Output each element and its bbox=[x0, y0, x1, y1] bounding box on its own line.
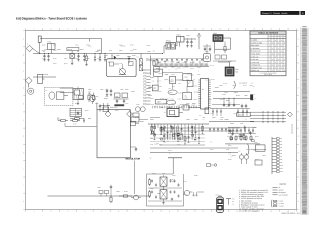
svg-text:Q304: Q304 bbox=[237, 136, 241, 138]
svg-text:10k: 10k bbox=[164, 112, 166, 114]
svg-text:R386: R386 bbox=[220, 119, 224, 121]
svg-text:75R: 75R bbox=[251, 82, 253, 84]
svg-text:X998: X998 bbox=[150, 188, 154, 190]
svg-text:4k7: 4k7 bbox=[169, 153, 171, 155]
svg-text:C185: C185 bbox=[95, 103, 99, 105]
svg-text:33p: 33p bbox=[227, 136, 229, 138]
svg-text:9: 9 bbox=[169, 210, 170, 213]
svg-text:X903: X903 bbox=[115, 110, 119, 112]
svg-text:R125: R125 bbox=[168, 150, 172, 152]
svg-text:33p: 33p bbox=[238, 151, 240, 153]
svg-text:R866: R866 bbox=[186, 79, 190, 81]
svg-text:4: 4 bbox=[84, 27, 85, 30]
svg-text:75R: 75R bbox=[166, 140, 168, 142]
svg-text:75R: 75R bbox=[228, 154, 230, 156]
svg-text:1: 1 bbox=[33, 27, 34, 30]
svg-text:D894: D894 bbox=[219, 85, 223, 87]
svg-text:11. IC7101 com dissipador: 11. IC7101 com dissipador bbox=[239, 210, 260, 213]
svg-text:J: J bbox=[23, 184, 24, 187]
svg-text:C279: C279 bbox=[190, 68, 194, 70]
svg-text:8: 8 bbox=[152, 27, 153, 30]
svg-text:T125: T125 bbox=[105, 89, 108, 91]
svg-text:AGC: AGC bbox=[172, 86, 175, 88]
svg-text:3: 3 bbox=[67, 27, 68, 30]
svg-text:BC848: BC848 bbox=[160, 98, 164, 100]
svg-text:X888: X888 bbox=[119, 50, 123, 52]
svg-text:D716: D716 bbox=[53, 58, 57, 60]
svg-text:AFT: AFT bbox=[195, 92, 198, 94]
svg-text:5: 5 bbox=[101, 210, 102, 213]
svg-text:L951: L951 bbox=[184, 98, 187, 100]
svg-text:28: 28 bbox=[165, 99, 167, 101]
svg-text:TO MAIN BD: TO MAIN BD bbox=[291, 124, 294, 135]
svg-text:7: 7 bbox=[135, 27, 136, 30]
svg-text:21: 21 bbox=[194, 61, 196, 63]
svg-text:X271: X271 bbox=[150, 144, 154, 146]
svg-text:75R: 75R bbox=[244, 119, 246, 121]
svg-text:4k7: 4k7 bbox=[229, 102, 231, 104]
svg-text:47p: 47p bbox=[176, 136, 178, 138]
svg-text:560: 560 bbox=[199, 115, 201, 117]
svg-text:10k: 10k bbox=[164, 142, 166, 144]
svg-text:T834: T834 bbox=[172, 175, 175, 177]
svg-text:L676: L676 bbox=[151, 104, 154, 106]
svg-text:Q500: Q500 bbox=[183, 194, 187, 196]
svg-text:T415: T415 bbox=[171, 74, 174, 76]
svg-text:R983: R983 bbox=[208, 99, 212, 101]
svg-text:R383: R383 bbox=[193, 99, 197, 101]
svg-text:L437: L437 bbox=[172, 103, 175, 105]
svg-text:100n: 100n bbox=[234, 92, 237, 94]
svg-text:R367: R367 bbox=[75, 103, 79, 105]
svg-text:14: 14 bbox=[154, 70, 156, 72]
svg-text:10: 10 bbox=[185, 210, 187, 213]
svg-text:SDA: SDA bbox=[199, 92, 202, 94]
svg-text:R695: R695 bbox=[224, 92, 228, 94]
svg-text:T548: T548 bbox=[105, 96, 108, 98]
svg-text:L753: L753 bbox=[164, 67, 167, 69]
svg-text:33p: 33p bbox=[154, 143, 156, 145]
svg-text:13: 13 bbox=[236, 210, 238, 213]
svg-text:Plasma TV Chassis Versão: Plasma TV Chassis Versão bbox=[262, 12, 288, 15]
svg-text:MODULATOR: MODULATOR bbox=[126, 158, 141, 161]
svg-text:T205: T205 bbox=[75, 117, 78, 119]
svg-text:C991: C991 bbox=[197, 67, 201, 69]
svg-text:6.6) Diagrama Elétrico - Tuner: 6.6) Diagrama Elétrico - Tuner Board ECO… bbox=[16, 17, 87, 21]
svg-text:D380: D380 bbox=[186, 138, 190, 140]
svg-text:RF: RF bbox=[232, 201, 234, 203]
svg-text:2: 2 bbox=[50, 210, 51, 213]
svg-text:10: 10 bbox=[185, 27, 187, 30]
svg-text:15: 15 bbox=[270, 27, 272, 30]
svg-text:9: 9 bbox=[169, 27, 170, 30]
svg-text:1: 1 bbox=[33, 210, 34, 213]
svg-text:5: 5 bbox=[101, 27, 102, 30]
svg-text:TABELA DE VERSOES: TABELA DE VERSOES bbox=[258, 31, 279, 34]
svg-text:Q934: Q934 bbox=[135, 117, 139, 119]
svg-text:12: 12 bbox=[219, 27, 221, 30]
svg-text:75R: 75R bbox=[198, 101, 200, 103]
svg-text:Q114: Q114 bbox=[64, 63, 68, 65]
svg-text:R279: R279 bbox=[243, 85, 247, 87]
svg-text:Q325: Q325 bbox=[42, 45, 46, 47]
svg-text:10k: 10k bbox=[165, 74, 167, 76]
svg-text:Q400: Q400 bbox=[172, 181, 176, 183]
svg-text:4k7: 4k7 bbox=[182, 68, 184, 70]
svg-text:14: 14 bbox=[253, 27, 255, 30]
svg-text:1: 1 bbox=[27, 43, 28, 46]
svg-text:T459: T459 bbox=[150, 138, 153, 140]
svg-text:75R: 75R bbox=[252, 86, 254, 88]
svg-text:11: 11 bbox=[202, 27, 204, 30]
svg-text:C715: C715 bbox=[73, 124, 77, 126]
svg-text:AFT: AFT bbox=[168, 88, 171, 90]
svg-text:U201: U201 bbox=[213, 32, 217, 35]
svg-text:8: 8 bbox=[152, 210, 153, 213]
svg-text:L557: L557 bbox=[178, 98, 181, 100]
svg-text:16: 16 bbox=[287, 27, 289, 30]
svg-text:R968: R968 bbox=[125, 89, 129, 91]
svg-text:D645: D645 bbox=[228, 159, 232, 161]
svg-text:Q143: Q143 bbox=[220, 99, 224, 101]
svg-text:Q139: Q139 bbox=[198, 98, 202, 100]
svg-text:R184: R184 bbox=[159, 138, 163, 140]
svg-text:D680: D680 bbox=[190, 75, 194, 77]
svg-text:T442: T442 bbox=[163, 103, 166, 105]
svg-text:R443: R443 bbox=[150, 98, 154, 100]
svg-text:3: 3 bbox=[67, 210, 68, 213]
svg-text:R488: R488 bbox=[194, 175, 198, 177]
svg-text:T210: T210 bbox=[125, 103, 128, 105]
svg-text:SCL: SCL bbox=[152, 80, 155, 82]
svg-text:R315: R315 bbox=[255, 159, 259, 161]
svg-text:C563: C563 bbox=[97, 58, 101, 60]
svg-text:100n: 100n bbox=[205, 79, 208, 81]
svg-text:R740: R740 bbox=[158, 86, 162, 88]
svg-text:X828: X828 bbox=[108, 58, 112, 60]
svg-text:Q199: Q199 bbox=[183, 181, 187, 183]
svg-text:8239 139 30216 - 6.6: 8239 139 30216 - 6.6 bbox=[282, 212, 300, 215]
svg-text:R258: R258 bbox=[193, 86, 197, 88]
svg-text:F101: F101 bbox=[48, 41, 52, 44]
svg-text:6: 6 bbox=[118, 210, 119, 213]
svg-text:BC848: BC848 bbox=[253, 150, 257, 152]
svg-text:J: J bbox=[298, 184, 299, 187]
svg-text:AGC: AGC bbox=[178, 83, 181, 85]
svg-text:BC848: BC848 bbox=[210, 65, 214, 67]
svg-text:25: 25 bbox=[160, 101, 162, 103]
svg-text:RF: RF bbox=[187, 91, 189, 93]
svg-text:C281: C281 bbox=[178, 92, 182, 94]
svg-text:6: 6 bbox=[118, 27, 119, 30]
svg-text:Legenda: Legenda bbox=[279, 183, 286, 186]
svg-text:Q934: Q934 bbox=[177, 132, 181, 134]
svg-text:T940: T940 bbox=[179, 79, 182, 81]
svg-text:SF101: SF101 bbox=[166, 40, 171, 43]
svg-text:R585: R585 bbox=[86, 58, 90, 60]
svg-text:C391: C391 bbox=[152, 60, 156, 62]
svg-text:BC848: BC848 bbox=[224, 119, 228, 121]
svg-text:BC848: BC848 bbox=[223, 83, 227, 85]
svg-text:75R: 75R bbox=[232, 199, 235, 201]
svg-text:X577: X577 bbox=[232, 85, 236, 87]
svg-text:Q274: Q274 bbox=[157, 80, 161, 82]
svg-text:L908: L908 bbox=[75, 58, 78, 60]
svg-text:10k: 10k bbox=[149, 157, 151, 159]
svg-text:4: 4 bbox=[84, 210, 85, 213]
svg-text:T457: T457 bbox=[64, 58, 67, 60]
svg-text:15: 15 bbox=[270, 210, 272, 213]
svg-text:1u: 1u bbox=[255, 98, 257, 100]
svg-text:75R: 75R bbox=[252, 94, 254, 96]
svg-text:10: 10 bbox=[175, 68, 177, 70]
svg-text:47p: 47p bbox=[202, 119, 204, 121]
svg-text:D672: D672 bbox=[119, 58, 123, 60]
svg-text:T627: T627 bbox=[197, 74, 200, 76]
svg-text:L802: L802 bbox=[95, 96, 98, 98]
svg-text:100n: 100n bbox=[159, 145, 162, 147]
svg-text:11: 11 bbox=[153, 87, 155, 89]
svg-text:47p: 47p bbox=[228, 144, 230, 146]
svg-text:D456: D456 bbox=[177, 68, 181, 70]
svg-text:Q434: Q434 bbox=[255, 136, 259, 138]
svg-text:R421: R421 bbox=[53, 63, 57, 65]
svg-text:13: 13 bbox=[236, 27, 238, 30]
svg-text:Q865: Q865 bbox=[171, 67, 175, 69]
svg-text:13: 13 bbox=[193, 79, 195, 81]
svg-text:X742: X742 bbox=[210, 113, 214, 115]
svg-text:D798: D798 bbox=[130, 45, 134, 47]
svg-text:T713: T713 bbox=[208, 92, 211, 94]
svg-text:10: 10 bbox=[158, 101, 160, 103]
svg-text:R183: R183 bbox=[185, 67, 189, 69]
svg-text:X836: X836 bbox=[177, 138, 181, 140]
svg-text:7: 7 bbox=[135, 210, 136, 213]
svg-text:T299: T299 bbox=[75, 45, 78, 47]
svg-text:11: 11 bbox=[202, 210, 204, 213]
svg-text:L334: L334 bbox=[119, 63, 122, 65]
svg-text:2: 2 bbox=[50, 27, 51, 30]
svg-text:L205: L205 bbox=[115, 96, 118, 98]
svg-text:R144: R144 bbox=[42, 58, 46, 60]
svg-text:C305: C305 bbox=[156, 103, 160, 105]
svg-text:R956: R956 bbox=[130, 58, 134, 60]
svg-text:D153: D153 bbox=[177, 144, 181, 146]
svg-text:D211: D211 bbox=[171, 98, 175, 100]
svg-text:D436: D436 bbox=[158, 73, 162, 75]
svg-text:Q487: Q487 bbox=[85, 110, 89, 112]
svg-text:R712: R712 bbox=[57, 119, 61, 121]
svg-text:X717: X717 bbox=[226, 106, 230, 108]
svg-text:X212: X212 bbox=[233, 113, 237, 115]
svg-text:B401: B401 bbox=[177, 33, 181, 36]
svg-text:R895: R895 bbox=[156, 68, 160, 70]
svg-text:75R: 75R bbox=[210, 142, 212, 144]
svg-text:X416: X416 bbox=[53, 45, 57, 47]
svg-text:T662: T662 bbox=[158, 91, 161, 93]
